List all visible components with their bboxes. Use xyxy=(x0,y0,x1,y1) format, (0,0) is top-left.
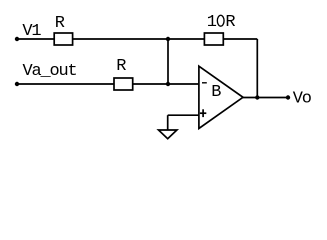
resistor R2 xyxy=(114,78,133,90)
plus symbol xyxy=(200,112,206,114)
ground xyxy=(159,130,177,139)
svg-text:R: R xyxy=(225,13,235,32)
terminal dot Vo xyxy=(286,95,290,99)
node output junction dot xyxy=(255,95,259,99)
svg-text:1: 1 xyxy=(207,13,217,32)
wire 10R to corner xyxy=(223,38,257,40)
wire V1 to R1 xyxy=(17,38,54,40)
wire node A to 10R xyxy=(168,38,204,40)
wire op-amp noninverting input xyxy=(168,114,199,116)
svg-text:V1: V1 xyxy=(22,22,41,41)
node A junction dot xyxy=(166,37,170,41)
terminal dot V1 xyxy=(15,37,19,41)
wire R1 to node A xyxy=(73,38,168,40)
terminal dot Va_out xyxy=(15,82,19,86)
wire op-amp output xyxy=(243,97,288,99)
node B junction dot xyxy=(166,82,170,86)
wire node A to node B vertical xyxy=(167,39,169,84)
svg-text:B: B xyxy=(211,83,221,102)
wire R2 to node B xyxy=(133,83,168,85)
wire node B to op-amp inverting input xyxy=(168,83,199,85)
svg-text:Vo: Vo xyxy=(293,89,312,108)
op-amp B xyxy=(199,66,243,128)
wire Va_out to R2 xyxy=(17,83,114,85)
wire to ground vertical xyxy=(167,115,169,130)
resistor R1 xyxy=(54,33,72,45)
svg-text:Va_out: Va_out xyxy=(23,62,77,81)
minus symbol xyxy=(202,82,207,84)
svg-text:R: R xyxy=(55,14,65,33)
resistor 10R xyxy=(204,33,223,45)
wire feedback vertical xyxy=(256,39,258,98)
svg-text:R: R xyxy=(116,57,126,76)
